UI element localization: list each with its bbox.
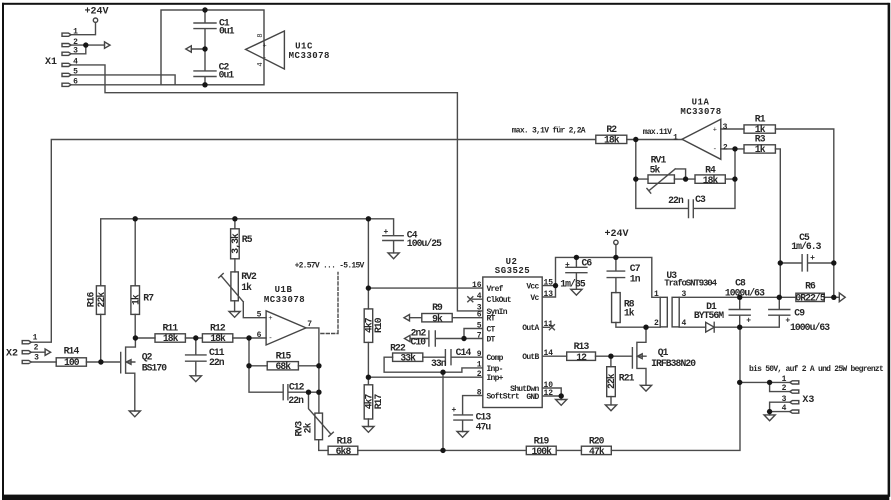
svg-text:1: 1	[654, 290, 659, 299]
svg-text:RT: RT	[487, 315, 496, 324]
svg-text:MC33078: MC33078	[264, 295, 305, 305]
svg-text:SG3525: SG3525	[495, 266, 530, 276]
svg-text:4: 4	[257, 62, 265, 66]
svg-text:bis 50V, auf 2 A und 25W begre: bis 50V, auf 2 A und 25W begrenzt	[749, 365, 884, 374]
svg-text:-: -	[713, 146, 717, 154]
svg-text:33n: 33n	[431, 358, 447, 369]
svg-text:2: 2	[782, 384, 787, 393]
svg-text:MC33078: MC33078	[680, 107, 721, 117]
svg-text:R9: R9	[432, 302, 443, 313]
svg-text:GND: GND	[526, 393, 539, 402]
svg-text:R20: R20	[589, 435, 605, 446]
svg-text:22n: 22n	[209, 357, 225, 368]
svg-text:5: 5	[257, 311, 262, 320]
svg-text:+: +	[810, 254, 815, 263]
svg-text:R6: R6	[805, 280, 816, 291]
svg-text:+: +	[746, 317, 751, 326]
svg-text:100u/25: 100u/25	[407, 238, 442, 249]
svg-text:Inp+: Inp+	[487, 374, 504, 383]
svg-text:3: 3	[73, 47, 78, 56]
svg-text:R14: R14	[64, 346, 80, 357]
svg-text:8: 8	[257, 33, 265, 37]
svg-text:1m/6.3: 1m/6.3	[791, 241, 821, 252]
svg-text:R3: R3	[755, 133, 766, 144]
svg-text:2: 2	[654, 319, 659, 328]
svg-text:TrafoSNT9304: TrafoSNT9304	[664, 279, 717, 289]
svg-text:Vcc: Vcc	[526, 283, 539, 292]
svg-text:R12: R12	[210, 322, 226, 333]
svg-text:+: +	[785, 317, 790, 326]
svg-text:4: 4	[73, 58, 78, 67]
svg-text:R1: R1	[755, 113, 766, 124]
svg-text:7: 7	[477, 331, 482, 340]
svg-text:68k: 68k	[275, 361, 291, 372]
svg-text:1: 1	[477, 361, 482, 370]
svg-text:+24V: +24V	[604, 229, 628, 240]
svg-text:C3: C3	[695, 194, 706, 205]
svg-text:18k: 18k	[604, 134, 620, 145]
svg-text:5k: 5k	[650, 164, 661, 175]
svg-text:12: 12	[576, 352, 587, 363]
svg-text:18k: 18k	[703, 175, 719, 186]
svg-text:R4: R4	[705, 164, 716, 175]
svg-text:47k: 47k	[589, 446, 605, 457]
svg-text:R21: R21	[619, 372, 635, 383]
svg-text:1k: 1k	[755, 144, 766, 155]
svg-text:+: +	[384, 228, 389, 237]
svg-text:2: 2	[34, 343, 39, 352]
svg-text:100k: 100k	[532, 446, 553, 457]
svg-text:22k: 22k	[606, 373, 617, 389]
svg-text:C10: C10	[410, 337, 426, 348]
svg-text:1k: 1k	[241, 282, 252, 293]
svg-text:9k: 9k	[432, 314, 443, 325]
svg-text:+24V: +24V	[84, 7, 108, 18]
svg-text:11: 11	[544, 320, 554, 329]
svg-text:U1B: U1B	[275, 285, 293, 295]
svg-text:18k: 18k	[210, 333, 226, 344]
svg-text:2k: 2k	[303, 422, 314, 433]
svg-text:1n: 1n	[630, 273, 641, 284]
svg-text:+: +	[452, 406, 457, 415]
svg-text:BYT56M: BYT56M	[694, 310, 724, 321]
svg-text:13: 13	[544, 290, 554, 299]
svg-text:R18: R18	[337, 435, 353, 446]
svg-text:Q2: Q2	[142, 351, 153, 362]
svg-text:R11: R11	[163, 322, 179, 333]
svg-text:4: 4	[782, 404, 787, 413]
svg-text:3,3k: 3,3k	[230, 233, 241, 254]
svg-text:+: +	[713, 127, 717, 135]
svg-text:5: 5	[477, 321, 482, 330]
svg-text:X1: X1	[45, 57, 57, 68]
svg-text:1000u/63: 1000u/63	[790, 322, 830, 333]
svg-text:1000u/63: 1000u/63	[725, 288, 765, 299]
svg-text:C12: C12	[289, 382, 305, 393]
svg-text:BS170: BS170	[142, 362, 168, 373]
svg-text:-: -	[262, 54, 266, 62]
svg-text:+2.57V ... -5.15V: +2.57V ... -5.15V	[295, 261, 365, 270]
svg-text:0u1: 0u1	[219, 25, 235, 36]
svg-text:RV2: RV2	[241, 271, 257, 282]
svg-text:OutB: OutB	[522, 353, 539, 362]
svg-text:6k8: 6k8	[336, 446, 352, 457]
svg-text:1k: 1k	[624, 308, 635, 319]
svg-text:C6: C6	[582, 258, 593, 269]
svg-text:+: +	[565, 261, 570, 270]
svg-text:0R22/5: 0R22/5	[795, 293, 825, 304]
svg-text:+: +	[268, 315, 272, 323]
svg-text:+: +	[262, 42, 266, 50]
svg-text:max.11V: max.11V	[643, 128, 672, 137]
svg-text:max. 3,1V für 2,2A: max. 3,1V für 2,2A	[512, 127, 586, 136]
svg-text:4: 4	[477, 292, 482, 301]
svg-text:R7: R7	[143, 293, 154, 304]
svg-text:X3: X3	[802, 395, 814, 406]
svg-text:R15: R15	[276, 350, 292, 361]
svg-text:OutA: OutA	[522, 324, 539, 333]
svg-text:Q1: Q1	[658, 347, 669, 358]
svg-text:22k: 22k	[96, 292, 107, 308]
svg-text:9: 9	[477, 350, 482, 359]
svg-text:6: 6	[257, 331, 262, 340]
svg-text:2: 2	[477, 370, 482, 379]
svg-text:R2: R2	[606, 124, 617, 135]
svg-text:3: 3	[782, 395, 787, 404]
svg-text:18k: 18k	[163, 333, 179, 344]
svg-text:C14: C14	[456, 347, 472, 358]
svg-text:R5: R5	[242, 234, 253, 245]
svg-text:R16: R16	[85, 291, 96, 307]
svg-text:3: 3	[682, 290, 687, 299]
svg-text:DT: DT	[487, 335, 496, 344]
svg-text:1: 1	[33, 334, 38, 343]
svg-text:2: 2	[73, 38, 78, 47]
svg-text:6: 6	[73, 78, 78, 87]
svg-text:7: 7	[307, 320, 312, 329]
svg-text:X2: X2	[6, 348, 18, 359]
svg-text:3: 3	[723, 123, 728, 132]
svg-text:33k: 33k	[400, 352, 416, 363]
svg-text:1: 1	[73, 28, 78, 37]
svg-text:15: 15	[544, 278, 554, 287]
svg-text:0u1: 0u1	[219, 70, 235, 81]
svg-text:1m/35: 1m/35	[560, 279, 586, 290]
svg-text:Vref: Vref	[487, 285, 504, 294]
svg-text:CT: CT	[487, 325, 496, 334]
svg-text:-: -	[268, 335, 272, 343]
svg-text:1k: 1k	[131, 294, 142, 305]
svg-text:5: 5	[73, 68, 78, 77]
svg-text:12: 12	[544, 389, 554, 398]
svg-text:22n: 22n	[288, 395, 304, 406]
svg-text:U1C: U1C	[295, 42, 313, 52]
svg-text:R19: R19	[534, 435, 550, 446]
svg-text:Inp-: Inp-	[487, 365, 503, 374]
svg-text:R13: R13	[574, 341, 590, 352]
svg-text:47u: 47u	[476, 422, 492, 433]
svg-text:16: 16	[472, 281, 482, 290]
svg-text:MC33078: MC33078	[289, 51, 330, 61]
svg-text:8: 8	[477, 388, 482, 397]
svg-text:4: 4	[682, 319, 687, 328]
svg-text:IRFB38N20: IRFB38N20	[651, 358, 696, 369]
svg-text:R10: R10	[373, 317, 384, 333]
svg-text:2: 2	[723, 143, 728, 152]
svg-text:Comp: Comp	[487, 354, 504, 363]
svg-text:14: 14	[544, 349, 554, 358]
svg-text:R17: R17	[373, 393, 384, 409]
svg-text:1: 1	[782, 375, 787, 384]
svg-text:100: 100	[64, 357, 80, 368]
svg-text:3: 3	[34, 353, 39, 362]
svg-text:ClkOut: ClkOut	[487, 296, 512, 305]
svg-text:Vc: Vc	[530, 294, 539, 303]
svg-text:6: 6	[477, 311, 482, 320]
svg-text:1: 1	[673, 134, 678, 143]
svg-text:C9: C9	[794, 307, 805, 318]
svg-text:22n: 22n	[668, 195, 684, 206]
